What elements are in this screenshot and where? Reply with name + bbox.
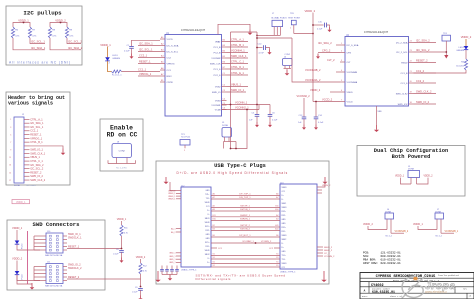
ground right of C15 <box>327 25 330 27</box>
svg-text:D+/D- are USB2.0 High Speed Di: D+/D- are USB2.0 High Speed Differential… <box>177 171 289 175</box>
svg-text:SWD_IO2: SWD_IO2 <box>398 104 409 106</box>
svg-text:SWD_CLK: SWD_CLK <box>210 63 221 65</box>
wire TP6 down <box>293 25 295 34</box>
svg-text:RX2+: RX2+ <box>282 211 287 213</box>
SWD J11 left pin 1 <box>34 266 46 268</box>
svg-text:RESET_1: RESET_1 <box>68 245 80 248</box>
title block row lines <box>360 277 474 279</box>
svg-text:GREEN: GREEN <box>112 58 120 60</box>
ground below C1 <box>131 48 133 53</box>
wire VDDD to LED D3 <box>16 230 18 241</box>
svg-text:CC2_1: CC2_1 <box>139 54 148 58</box>
header J2 pin 3 <box>24 126 30 128</box>
svg-text:ASSY DRW:: ASSY DRW: <box>363 262 378 265</box>
svg-text:SBU1: SBU1 <box>205 218 210 220</box>
svg-text:VBUS: VBUS <box>282 235 288 237</box>
wire GND_C <box>211 263 280 265</box>
svg-text:PC2_S: PC2_S <box>214 75 221 77</box>
svg-text:Both Powered: Both Powered <box>392 154 431 160</box>
U2 left pin 3 CLT <box>340 61 345 63</box>
wire left pins bus <box>33 236 35 250</box>
wire cap drop 1 <box>303 98 305 117</box>
svg-text:VBAT: VBAT <box>215 40 221 43</box>
header J2 pin 17 <box>24 179 30 181</box>
wire CFG to ground <box>318 52 340 54</box>
svg-text:VCONN4B_1: VCONN4B_1 <box>445 231 459 233</box>
ground SWD <box>30 283 35 290</box>
svg-text:B6: B6 <box>276 235 278 237</box>
stub row CC right <box>274 247 280 249</box>
svg-text:I2C_S_SDA: I2C_S_SDA <box>347 44 359 47</box>
svg-text:SWD_IO_2: SWD_IO_2 <box>30 175 43 178</box>
svg-text:SAM 20750-ND SA: SAM 20750-ND SA <box>45 285 63 288</box>
wire / net label RESET_2 <box>414 62 437 64</box>
wire RESET_2 long <box>67 278 141 280</box>
svg-text:CC1_B: CC1_B <box>400 73 408 75</box>
svg-text:SSTXN_1: SSTXN_1 <box>240 209 251 211</box>
capacitor C5 <box>256 105 258 115</box>
svg-text:SBU1: SBU1 <box>282 203 287 205</box>
ground caps left <box>168 275 173 281</box>
svg-text:VSS: VSS <box>378 111 383 113</box>
wire VDDD rail <box>13 23 30 28</box>
svg-text:B3: B3 <box>213 229 215 231</box>
wire VDDD to R12 <box>140 259 142 263</box>
svg-text:I2C_SCL_2: I2C_SCL_2 <box>68 40 82 44</box>
U1 right pin C2 VSS2 <box>222 86 227 88</box>
wire VCONN_1 horizontal run <box>222 104 271 106</box>
connector J11 inner pads <box>50 266 59 282</box>
U2 left pin 6 VDDD <box>340 91 345 93</box>
svg-text:VCCD_2: VCCD_2 <box>322 98 333 102</box>
svg-text:TX1+: TX1+ <box>282 255 286 257</box>
left lower pins <box>176 252 181 254</box>
svg-text:I2C_SDA_2: I2C_SDA_2 <box>30 164 44 167</box>
U1 right pin B5 VCONN2 <box>222 57 227 59</box>
ground on CFG wire <box>316 54 320 59</box>
svg-text:SWD_CLK_2: SWD_CLK_2 <box>416 90 432 94</box>
svg-text:VBUS: VBUS <box>282 187 288 189</box>
svg-text:CLT: CLT <box>347 62 352 64</box>
svg-text:SAM 20750-ND SA: SAM 20750-ND SA <box>45 254 63 257</box>
svg-text:0.1uF: 0.1uF <box>317 28 323 30</box>
svg-text:CLT_2: CLT_2 <box>327 58 335 62</box>
stub row CC left <box>211 247 217 249</box>
wire GND_D <box>211 266 280 268</box>
svg-text:VBUS: VBUS <box>205 222 211 224</box>
wire R_CC1 to U1 CC1 <box>122 71 161 73</box>
ground below U2 <box>374 125 379 132</box>
wire SSTXP_2 <box>211 226 280 228</box>
ground top-left USB <box>164 177 169 184</box>
svg-text:www.elecfans.c: www.elecfans.c <box>425 290 447 294</box>
svg-text:CFG_2: CFG_2 <box>322 49 331 53</box>
svg-text:SSRXP_1: SSRXP_1 <box>240 215 251 217</box>
wire DP_TOP_1 <box>211 195 280 197</box>
wire SSRXN_1 <box>211 220 280 222</box>
U2 right pin 18 SWD_IO2 <box>409 103 414 105</box>
U1 left pin B1 CNTR <box>160 81 165 83</box>
svg-text:SSTXP_1: SSTXP_1 <box>240 206 250 208</box>
svg-text:7: 7 <box>10 142 11 144</box>
net label I2C_SDA_2 <box>336 44 340 46</box>
svg-text:VDDD_1: VDDD_1 <box>117 218 127 221</box>
wire long vertical from top rail <box>231 32 248 149</box>
svg-text:CTRL_C_1: CTRL_C_1 <box>231 60 245 64</box>
svg-text:I2C_SCL_1: I2C_SCL_1 <box>31 40 45 44</box>
U1 right pin B2 VBAT <box>222 41 227 43</box>
svg-text:B11: B11 <box>213 215 216 217</box>
U1 left pin A4 CC2 <box>160 57 165 59</box>
svg-text:CON2: CON2 <box>284 54 290 56</box>
svg-text:GND_1: GND_1 <box>169 253 175 255</box>
svg-text:Date:: Date: <box>362 295 368 298</box>
svg-text:VDDD_2: VDDD_2 <box>136 256 146 259</box>
U1 left pin A1 VCCD <box>160 38 165 40</box>
svg-text:CC_2: CC_2 <box>324 253 330 255</box>
svg-text:CC1_2: CC1_2 <box>416 69 425 73</box>
svg-text:R_CC1_1: R_CC1_1 <box>112 75 122 77</box>
svg-text:GREEN: GREEN <box>456 50 464 52</box>
power arrow VBUS <box>248 30 253 36</box>
svg-text:620-63232-01: 620-63232-01 <box>381 262 401 265</box>
wire / net label CC2_2 <box>414 82 437 84</box>
watermark swirl <box>402 276 423 297</box>
svg-text:A7: A7 <box>213 196 215 199</box>
svg-text:VCONN4A_2: VCONN4A_2 <box>305 78 321 82</box>
SWD J10 left pin 4 <box>34 246 46 248</box>
header J2 pin 1 <box>24 118 30 120</box>
svg-text:VPROG_1: VPROG_1 <box>139 72 152 76</box>
wire / net label VCONN4_1 <box>227 52 249 54</box>
USB Type-C group box <box>156 161 329 284</box>
wire / net label CTRL_E_1 <box>227 74 249 76</box>
wire / net label VPROG_1 <box>138 75 160 77</box>
svg-text:CC1: CC1 <box>282 267 286 269</box>
svg-text:5: 5 <box>10 134 11 136</box>
svg-text:VBUS_1: VBUS_1 <box>30 156 40 159</box>
header J2 pin 12 <box>24 160 30 162</box>
wire / net label CTRL_C_1 <box>227 63 249 65</box>
U1 left pin A7 RDIV <box>160 75 165 77</box>
svg-text:VBUS_1: VBUS_1 <box>168 196 175 198</box>
svg-text:RX1-: RX1- <box>205 246 209 248</box>
ground below C14 <box>314 125 318 130</box>
watermark orange dot <box>413 277 417 281</box>
svg-text:DP_TOP_1: DP_TOP_1 <box>239 194 251 196</box>
svg-text:VBUS_2: VBUS_2 <box>322 185 331 187</box>
IC U2 CYPD2134-24LQXIT body <box>345 37 409 107</box>
svg-text:SWD_IO_1: SWD_IO_1 <box>231 88 245 92</box>
wire VCONN joint <box>211 242 280 244</box>
header J2 pin 6 <box>24 137 30 139</box>
U2 right pin 19 SWD_CLK2 <box>409 93 414 95</box>
svg-text:RESET_2: RESET_2 <box>416 59 428 63</box>
wire GND_B <box>211 258 280 260</box>
svg-text:NC header: NC header <box>26 184 36 187</box>
LED D1 <box>105 57 110 61</box>
U2 right pin 24 I2C_2_SDA <box>409 42 414 44</box>
svg-text:SWD Connectors: SWD Connectors <box>33 221 81 228</box>
svg-text:VDDD_2: VDDD_2 <box>310 88 321 92</box>
wire VCCD rail to U1 <box>132 40 161 46</box>
wire SCL out <box>67 38 81 44</box>
svg-text:SWD_CLK_1: SWD_CLK_1 <box>231 54 247 58</box>
svg-text:CTRL_A_1: CTRL_A_1 <box>30 118 43 121</box>
title block bottom row <box>466 293 468 299</box>
svg-text:1: 1 <box>290 27 291 29</box>
SWD J10 right pin 6 <box>63 235 67 237</box>
svg-text:GND_1: GND_1 <box>169 262 175 264</box>
wire VDDD_1 to LED1 <box>107 47 109 58</box>
svg-text:RESET_2: RESET_2 <box>68 276 80 279</box>
connector J11 body <box>46 264 63 284</box>
wires VBUS right <box>317 186 322 188</box>
svg-text:D+: D+ <box>207 210 209 212</box>
wire SDA out <box>13 38 45 50</box>
wire J7 rail <box>257 34 280 36</box>
svg-text:A6: A6 <box>213 193 215 196</box>
svg-text:CTRL_D_1: CTRL_D_1 <box>231 65 245 69</box>
svg-text:I2C_2_SCL: I2C_2_SCL <box>396 52 408 54</box>
svg-text:CON2: CON2 <box>119 151 126 153</box>
svg-text:various signals: various signals <box>8 101 53 107</box>
ground below C5 <box>255 122 259 127</box>
wires J7 pins down <box>273 27 275 36</box>
svg-text:RDIV: RDIV <box>167 76 173 78</box>
svg-text:I2C_SDA_2: I2C_SDA_2 <box>318 41 332 45</box>
resistor R3 <box>48 27 51 38</box>
svg-text:S1: S1 <box>276 257 278 259</box>
SWD J11 right pin 10 <box>63 280 67 282</box>
wire SSTXN_1 <box>211 210 280 212</box>
svg-text:RX1+: RX1+ <box>282 227 287 229</box>
svg-text:PC1_S: PC1_S <box>214 69 221 71</box>
svg-text:SWD_CLK_2: SWD_CLK_2 <box>30 179 45 182</box>
svg-text:SBU1_2: SBU1_2 <box>324 247 333 249</box>
svg-text:CTRL_E_1: CTRL_E_1 <box>231 71 244 75</box>
svg-text:VCONN4B_2: VCONN4B_2 <box>305 68 321 72</box>
wire VCONN4A rail <box>257 37 292 39</box>
wire VDDD to LED D4 <box>16 261 18 272</box>
SWD J10 left pin 1 <box>34 235 46 237</box>
offpage label VDDD_1 <box>12 200 30 204</box>
U1 left pin A5 VPROG <box>160 63 165 65</box>
svg-text:S1: S1 <box>213 262 215 264</box>
svg-text:USB31_TYPE-C: USB31_TYPE-C <box>181 270 197 272</box>
svg-text:CC1: CC1 <box>167 70 172 72</box>
svg-text:VCONN1: VCONN1 <box>211 105 221 107</box>
svg-text:NC 1-2: NC 1-2 <box>386 235 393 237</box>
svg-text:0.1uF: 0.1uF <box>132 292 138 294</box>
svg-text:I2C_SCL_2: I2C_SCL_2 <box>30 168 44 171</box>
svg-text:VBUS_1: VBUS_1 <box>231 83 242 87</box>
svg-text:SWD_IO_2: SWD_IO_2 <box>416 100 430 104</box>
svg-text:D+: D+ <box>282 247 284 249</box>
svg-text:VCONN2: VCONN2 <box>211 58 221 60</box>
svg-text:S1: S1 <box>276 265 278 267</box>
U1 right pin C5 VCONN1 <box>222 104 227 106</box>
wire RESET_1 long <box>67 248 122 250</box>
resistor R2 <box>28 27 31 38</box>
svg-text:VDDD_1: VDDD_1 <box>413 223 423 226</box>
svg-text:VBUS: VBUS <box>282 207 288 209</box>
wire / net label I2C_SCL_1 <box>138 51 160 53</box>
svg-text:D+: D+ <box>207 262 209 264</box>
capacitor C9 <box>138 289 143 291</box>
svg-text:4.7uF: 4.7uF <box>259 53 265 55</box>
wire VCONN vertical <box>256 32 258 105</box>
header J2 pin 7 <box>24 141 30 143</box>
svg-text:TX1+: TX1+ <box>205 194 209 196</box>
header J2 pin 9 <box>24 149 30 151</box>
LED D3 <box>15 241 20 245</box>
svg-text:VDDD_1: VDDD_1 <box>100 43 111 47</box>
svg-text:GND_1: GND_1 <box>169 259 175 261</box>
svg-text:VBUS: VBUS <box>205 250 211 252</box>
svg-text:Test Point: Test Point <box>181 136 191 139</box>
svg-text:VDDD_1: VDDD_1 <box>16 201 26 204</box>
U1 right pin B6 SWD_CLK <box>222 63 227 65</box>
svg-text:VCONN_1: VCONN_1 <box>235 101 248 105</box>
svg-text:I2C pullups: I2C pullups <box>23 10 62 17</box>
svg-text:SWD_IO_1: SWD_IO_1 <box>30 149 43 152</box>
svg-text:CC2_1: CC2_1 <box>30 130 38 133</box>
wire LED2 to R4 <box>465 50 467 59</box>
svg-text:A6: A6 <box>276 193 278 196</box>
capacitor C10 horizontal <box>257 47 263 49</box>
wire R4 to U2 CC1_2 <box>414 70 467 73</box>
header J2 pin 2 <box>24 122 30 124</box>
svg-text:11: 11 <box>9 157 11 159</box>
resistor R4 <box>65 27 68 38</box>
svg-text:CTRL_C_1: CTRL_C_1 <box>30 160 43 163</box>
U1 left pin A2 I2C_S_SDA <box>160 45 165 47</box>
capacitor C15 horizontal <box>313 24 324 26</box>
svg-text:I2C_SCL_1: I2C_SCL_1 <box>139 48 153 52</box>
svg-text:Power: Power <box>22 243 24 249</box>
svg-text:9: 9 <box>10 150 11 152</box>
ground header <box>61 149 66 156</box>
wire / net label CTRL_A_1 <box>227 41 249 43</box>
svg-text:GND_1: GND_1 <box>169 256 175 258</box>
svg-text:I2C_SDA_1: I2C_SDA_1 <box>30 122 44 125</box>
wire VCCD_2 rail <box>313 101 340 103</box>
wire top rail short <box>231 31 258 33</box>
svg-text:SWD_CLK_1: SWD_CLK_1 <box>30 152 45 155</box>
svg-text:VCCD: VCCD <box>167 39 174 41</box>
wire TP4 stem to arrow <box>445 41 447 55</box>
svg-text:DN_TOP_1: DN_TOP_1 <box>239 197 251 199</box>
svg-text:I2C_S_SCL: I2C_S_SCL <box>167 51 179 53</box>
SWD J11 left pin 4 <box>34 276 46 278</box>
wire GND_A <box>211 255 280 257</box>
svg-text:USB Type-C Plugs: USB Type-C Plugs <box>214 163 266 169</box>
svg-text:SSTXN_2: SSTXN_2 <box>240 229 251 231</box>
U1 right pin C6 VC4B <box>222 109 227 111</box>
wire VDDD to R11 <box>121 221 123 225</box>
svg-text:CTRL_B_1: CTRL_B_1 <box>231 43 244 47</box>
ground below cap <box>139 296 143 301</box>
svg-text:CC1_1: CC1_1 <box>138 67 147 71</box>
svg-text:VPROG: VPROG <box>167 63 175 65</box>
U2 left pin 1 I2C_S_SDA <box>340 44 345 46</box>
svg-text:SWDCLK_2: SWDCLK_2 <box>68 267 82 270</box>
svg-text:17: 17 <box>9 180 11 182</box>
svg-text:CC2: CC2 <box>167 57 172 59</box>
wire header pin8 to ground <box>30 146 64 149</box>
wires below U3 <box>224 137 226 142</box>
wire / net label CC2_1 <box>138 57 160 59</box>
wires jumper J4 <box>386 219 388 230</box>
svg-text:13: 13 <box>9 165 11 167</box>
svg-text:A3: A3 <box>276 218 278 221</box>
wires below J4 <box>284 66 286 69</box>
SWD J11 left pin 5 <box>34 280 46 282</box>
wire SCL out <box>30 38 45 44</box>
svg-text:NC 1-2 RD: NC 1-2 RD <box>116 168 127 170</box>
svg-text:VCONN2_1: VCONN2_1 <box>242 241 254 243</box>
resistor R12 <box>139 263 142 274</box>
SWD J11 right pin 7 <box>63 269 67 271</box>
svg-text:0.1uF: 0.1uF <box>124 51 130 53</box>
svg-text:A5_1: A5_1 <box>171 227 175 230</box>
svg-text:I2C_2_SDA: I2C_2_SDA <box>396 41 408 44</box>
U1 right pin B7 PC1_S <box>222 68 227 70</box>
wire R to junction <box>121 236 123 249</box>
svg-text:A7: A7 <box>276 196 278 199</box>
U2 right pin 22 SWD2 <box>409 62 414 64</box>
svg-text:VCONN4_1: VCONN4_1 <box>231 49 245 53</box>
Header group box <box>6 92 70 185</box>
U2 left pin 2 CFG <box>340 52 345 54</box>
svg-text:VDDD: VDDD <box>347 92 354 94</box>
SWD J10 right pin 7 <box>63 239 67 241</box>
resistor R_CC1 <box>112 70 122 73</box>
wires VBUS left <box>176 190 181 192</box>
svg-text:B6: B6 <box>213 235 215 237</box>
svg-text:A10: A10 <box>275 228 278 231</box>
header J2 pin 16 <box>24 175 30 177</box>
SWD group box <box>7 220 105 290</box>
svg-text:I2C_SCL_2: I2C_SCL_2 <box>416 48 430 52</box>
svg-text:A3: A3 <box>213 208 215 211</box>
ground below cap <box>120 258 124 263</box>
ground right of C10 <box>266 48 270 50</box>
svg-text:SBU2: SBU2 <box>205 254 210 256</box>
wire LED1 to R_CC1 <box>108 61 112 72</box>
wire SDA out <box>50 38 81 50</box>
SWD J10 right pin 9 <box>63 246 67 248</box>
wire VCONN2_1 run <box>222 109 260 111</box>
svg-text:S1: S1 <box>213 254 215 256</box>
svg-text:VCONN_2: VCONN_2 <box>261 241 272 243</box>
svg-text:B10: B10 <box>275 209 278 211</box>
svg-text:SBU2_2: SBU2_2 <box>324 250 333 252</box>
header J2 pin 14 <box>24 168 30 170</box>
wire left pins bus <box>33 267 35 281</box>
wire SSTXN_2 <box>211 230 280 232</box>
svg-text:VDDD_1: VDDD_1 <box>12 226 23 230</box>
SWD J10 right pin 10 <box>63 249 67 251</box>
svg-text:S1: S1 <box>276 262 278 264</box>
svg-text:GND: GND <box>282 251 287 253</box>
svg-text:VBUS_1: VBUS_1 <box>168 193 175 195</box>
ground below C13 <box>302 125 306 130</box>
svg-text:SBU2: SBU2 <box>282 239 287 241</box>
svg-text:S1: S1 <box>213 265 215 267</box>
wire LED D3 to connector <box>17 244 40 250</box>
